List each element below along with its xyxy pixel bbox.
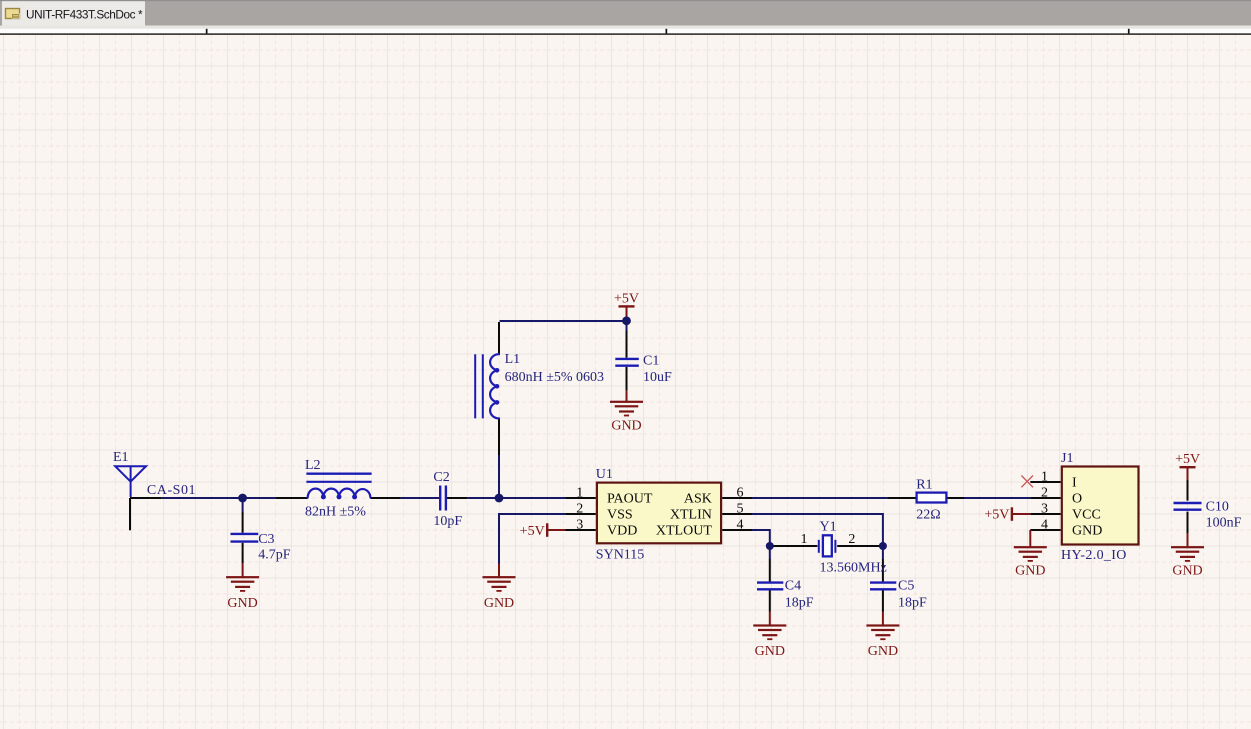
svg-text:10uF: 10uF bbox=[643, 370, 672, 385]
svg-text:U1: U1 bbox=[596, 467, 613, 482]
svg-text:SYN115: SYN115 bbox=[596, 547, 645, 562]
svg-text:J1: J1 bbox=[1061, 451, 1073, 466]
svg-text:GND: GND bbox=[1172, 563, 1202, 578]
svg-text:10pF: 10pF bbox=[433, 514, 462, 529]
svg-text:GND: GND bbox=[1015, 563, 1045, 578]
svg-text:L2: L2 bbox=[305, 458, 321, 473]
svg-text:XTLIN: XTLIN bbox=[670, 508, 712, 523]
svg-text:100nF: 100nF bbox=[1206, 515, 1242, 530]
svg-text:PAOUT: PAOUT bbox=[607, 492, 653, 507]
svg-text:4: 4 bbox=[737, 518, 744, 533]
svg-text:VDD: VDD bbox=[607, 524, 637, 539]
svg-text:VSS: VSS bbox=[607, 508, 633, 523]
svg-text:22Ω: 22Ω bbox=[916, 508, 940, 523]
svg-text:2: 2 bbox=[848, 532, 855, 547]
svg-text:ASK: ASK bbox=[684, 492, 712, 507]
svg-text:1: 1 bbox=[1041, 470, 1048, 485]
svg-text:18pF: 18pF bbox=[785, 595, 814, 610]
svg-text:680nH ±5% 0603: 680nH ±5% 0603 bbox=[505, 370, 604, 385]
svg-text:+5V: +5V bbox=[984, 508, 1009, 523]
svg-text:GND: GND bbox=[755, 644, 785, 659]
svg-text:CA-S01: CA-S01 bbox=[147, 483, 196, 498]
svg-text:GND: GND bbox=[868, 644, 898, 659]
svg-text:UNIT-RF433T.SchDoc *: UNIT-RF433T.SchDoc * bbox=[26, 8, 143, 22]
svg-text:+5V: +5V bbox=[1175, 452, 1200, 467]
svg-text:L1: L1 bbox=[505, 352, 521, 367]
svg-text:+5V: +5V bbox=[520, 524, 545, 539]
svg-text:GND: GND bbox=[1072, 524, 1102, 539]
svg-text:C1: C1 bbox=[643, 354, 659, 369]
svg-text:2: 2 bbox=[576, 502, 583, 517]
svg-text:C4: C4 bbox=[785, 579, 801, 594]
svg-text:E1: E1 bbox=[113, 450, 129, 465]
svg-text:2: 2 bbox=[1041, 486, 1048, 501]
svg-text:5: 5 bbox=[737, 502, 744, 517]
svg-text:C5: C5 bbox=[898, 579, 914, 594]
svg-text:1: 1 bbox=[576, 486, 583, 501]
svg-text:GND: GND bbox=[484, 596, 514, 611]
svg-text:I: I bbox=[1072, 476, 1077, 491]
svg-text:82nH ±5%: 82nH ±5% bbox=[305, 505, 366, 520]
svg-text:HY-2.0_IO: HY-2.0_IO bbox=[1061, 548, 1127, 563]
svg-text:XTLOUT: XTLOUT bbox=[656, 524, 712, 539]
svg-text:1: 1 bbox=[801, 532, 808, 547]
svg-text:+5V: +5V bbox=[614, 291, 639, 306]
svg-text:Y1: Y1 bbox=[820, 520, 837, 535]
svg-text:GND: GND bbox=[227, 596, 257, 611]
svg-text:6: 6 bbox=[737, 486, 744, 501]
svg-text:R1: R1 bbox=[916, 477, 932, 492]
svg-text:VCC: VCC bbox=[1072, 508, 1101, 523]
svg-text:C10: C10 bbox=[1206, 499, 1229, 514]
svg-text:13.560MHz: 13.560MHz bbox=[820, 561, 887, 576]
svg-text:GND: GND bbox=[611, 419, 641, 434]
svg-text:O: O bbox=[1072, 492, 1082, 507]
svg-text:18pF: 18pF bbox=[898, 595, 927, 610]
svg-text:3: 3 bbox=[1041, 502, 1048, 517]
svg-text:C3: C3 bbox=[258, 532, 274, 547]
svg-text:3: 3 bbox=[576, 518, 583, 533]
svg-text:4: 4 bbox=[1041, 518, 1048, 533]
svg-text:C2: C2 bbox=[433, 470, 449, 485]
svg-text:4.7pF: 4.7pF bbox=[258, 548, 291, 563]
